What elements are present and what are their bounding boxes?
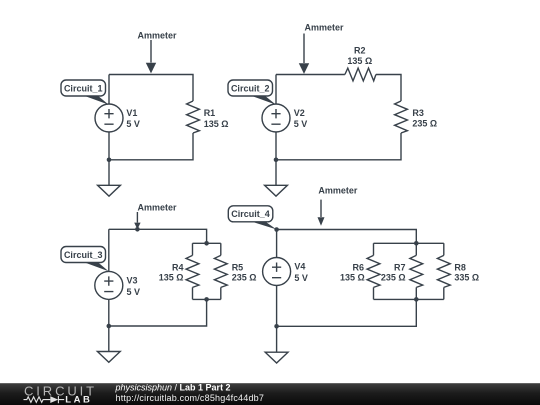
svg-text:R5: R5	[232, 262, 244, 272]
svg-text:R6: R6	[352, 262, 364, 272]
svg-text:235 Ω: 235 Ω	[381, 272, 406, 282]
svg-text:235 Ω: 235 Ω	[232, 272, 257, 282]
svg-text:5 V: 5 V	[126, 119, 140, 129]
svg-text:Ammeter: Ammeter	[137, 203, 177, 213]
svg-text:135 Ω: 135 Ω	[347, 56, 372, 66]
svg-text:V4: V4	[294, 262, 305, 272]
svg-text:135 Ω: 135 Ω	[340, 272, 365, 282]
svg-text:135 Ω: 135 Ω	[204, 119, 229, 129]
svg-text:Ammeter: Ammeter	[305, 23, 345, 33]
svg-text:235 Ω: 235 Ω	[412, 119, 437, 129]
svg-text:Circuit_2: Circuit_2	[231, 83, 270, 93]
svg-text:LAB: LAB	[65, 395, 92, 405]
svg-text:physicsisphun / Lab 1 Part 2: physicsisphun / Lab 1 Part 2	[115, 383, 231, 393]
svg-text:R1: R1	[204, 108, 216, 118]
svg-text:Circuit_3: Circuit_3	[64, 250, 103, 260]
svg-text:V3: V3	[127, 276, 138, 286]
svg-text:135 Ω: 135 Ω	[159, 272, 184, 282]
svg-text:http://circuitlab.com/c85hg4fc: http://circuitlab.com/c85hg4fc44db7	[116, 393, 265, 403]
svg-text:Ammeter: Ammeter	[318, 186, 358, 196]
svg-text:V1: V1	[126, 108, 137, 118]
svg-text:R4: R4	[172, 262, 184, 272]
svg-text:V2: V2	[294, 108, 305, 118]
svg-text:R8: R8	[454, 262, 466, 272]
svg-text:335 Ω: 335 Ω	[454, 272, 479, 282]
svg-text:5 V: 5 V	[127, 287, 141, 297]
svg-text:Circuit_1: Circuit_1	[64, 83, 103, 93]
svg-text:R7: R7	[394, 262, 406, 272]
svg-text:Ammeter: Ammeter	[137, 31, 177, 41]
svg-text:R3: R3	[412, 108, 424, 118]
svg-text:5 V: 5 V	[294, 273, 308, 283]
svg-text:5 V: 5 V	[294, 119, 308, 129]
svg-text:R2: R2	[354, 46, 366, 56]
svg-text:Circuit_4: Circuit_4	[231, 209, 270, 219]
